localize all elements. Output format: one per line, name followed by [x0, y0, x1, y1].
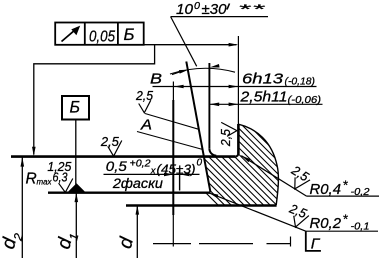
- hatching of cross-section: [121, 108, 380, 248]
- extension line x=173.4 upper (6h13): [172, 82, 174, 102]
- datum filled triangle: [68, 183, 85, 192]
- roughness 2,5 rotated in groove: [218, 122, 237, 147]
- wavy break line: [238, 124, 278, 205]
- svg-text:R: R: [26, 171, 37, 188]
- 10 deg taper edge: [186, 62, 210, 192]
- rib corner arc: [209, 148, 216, 155]
- d1 label: [53, 229, 81, 252]
- svg-text:+0,2: +0,2: [130, 158, 151, 170]
- arrow down to surface: [32, 147, 36, 156]
- svg-text:max: max: [37, 177, 53, 187]
- svg-text:В: В: [150, 71, 162, 87]
- d dimension line: [136, 205, 138, 258]
- d2 dimension line: [21, 157, 23, 258]
- svg-text:2,5: 2,5: [218, 128, 233, 147]
- svg-text:2,5: 2,5: [100, 134, 120, 149]
- svg-text:6,3: 6,3: [53, 170, 69, 185]
- d1 surface line y=192.7: [48, 191, 211, 193]
- svg-text:6h13: 6h13: [242, 71, 283, 87]
- arrow at extension line: [229, 43, 239, 47]
- d2 label: [0, 229, 26, 252]
- svg-text:А: А: [140, 118, 152, 134]
- svg-text:-0,2: -0,2: [351, 187, 370, 198]
- runout arrow symbol in frame: [62, 26, 81, 42]
- svg-text:-0,1: -0,1: [351, 221, 370, 232]
- svg-text:0: 0: [194, 1, 200, 12]
- svg-text:0,5: 0,5: [106, 159, 128, 174]
- groove bottom right fillet R0,4: [235, 153, 238, 156]
- svg-text:10: 10: [176, 1, 194, 18]
- svg-text:R0,4: R0,4: [310, 182, 342, 198]
- left arc arrow: [179, 68, 189, 74]
- svg-text:Б: Б: [70, 98, 81, 117]
- roughness 2,5 on R0,2 leader: [283, 200, 311, 230]
- svg-text:(-0,06): (-0,06): [288, 94, 322, 106]
- groove left wall rib x=209.4: [208, 63, 210, 148]
- svg-text:R0,2: R0,2: [310, 216, 342, 232]
- right arc arrow: [209, 64, 219, 69]
- bottom surface y=205.5: [126, 204, 277, 207]
- extension line x=173.3 lower: [172, 215, 174, 247]
- d1 dimension line: [75, 193, 77, 258]
- leader drop x=154.6: [34, 45, 155, 155]
- svg-text:(45±3): (45±3): [157, 161, 196, 176]
- end face edge x=173.3: [172, 100, 174, 215]
- surface d2 / groove bottom line y=156.6: [11, 155, 235, 158]
- roughness 2,5 on R0,4 leader: [284, 162, 314, 193]
- svg-text:2,5h11: 2,5h11: [239, 89, 287, 105]
- chamfer extension x=179.6: [179, 168, 181, 191]
- leader right to arrow at x=238: [144, 44, 237, 46]
- svg-text:0,05: 0,05: [89, 28, 115, 45]
- svg-text:(-0,18): (-0,18): [285, 76, 316, 88]
- extension line x=238.4 upper: [237, 36, 239, 124]
- svg-text:Б: Б: [124, 26, 135, 44]
- groove right wall (thick part): [237, 124, 240, 154]
- d label: [115, 234, 138, 251]
- svg-text:0: 0: [197, 158, 203, 169]
- svg-text:2фаски: 2фаски: [112, 176, 164, 191]
- datum leader: [75, 120, 77, 185]
- svg-text:±30: ±30: [202, 1, 228, 18]
